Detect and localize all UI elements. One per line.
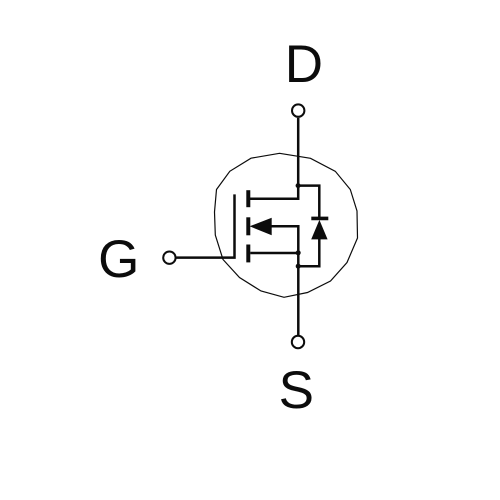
svg-text:S: S [279, 361, 314, 420]
node drain junction [296, 183, 301, 188]
diode D1 triangle [311, 220, 327, 240]
wire source bar to source line [250, 252, 298, 255]
gate bar middle (body) [246, 217, 250, 235]
wire body arrow to source [271, 226, 299, 253]
terminal G [163, 252, 175, 264]
wire diode bottom branch [297, 239, 319, 266]
gate bar bottom (source side) [246, 245, 250, 263]
svg-text:G: G [98, 230, 139, 289]
wire source vertical [297, 253, 300, 336]
enclosure circle (faceted) [215, 153, 358, 297]
body arrow [250, 218, 272, 236]
terminal S [292, 336, 304, 348]
wire gate lead [176, 194, 234, 257]
terminal D [292, 104, 304, 116]
gate bar top (drain side) [246, 190, 250, 207]
svg-text:D: D [285, 35, 323, 94]
wire diode top branch [297, 186, 319, 219]
node source junction [296, 250, 301, 255]
wire drain vertical [249, 118, 298, 199]
diode D1 cathode bar [311, 217, 328, 221]
node diode-source junction [296, 264, 301, 269]
